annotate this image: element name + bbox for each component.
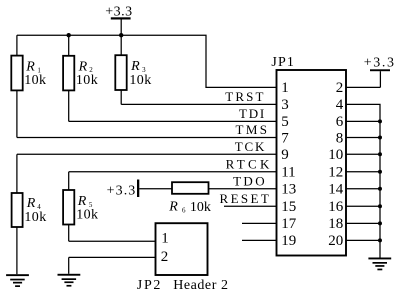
svg-text:10k: 10k [76,208,98,223]
resistor R1 [11,35,46,137]
wire pin8 [346,137,380,139]
wire JP2 pin1 [69,240,156,242]
resistor R6 [168,182,211,215]
svg-text:20: 20 [328,233,343,249]
svg-text:2: 2 [161,249,169,265]
resistor R3 [115,35,151,104]
wire TMS [17,137,277,139]
wire pin18 [346,222,380,224]
junction pin12 [378,170,382,174]
svg-text:10k: 10k [190,200,211,215]
svg-text:RESET: RESET [220,191,272,206]
junction pin6 [378,119,382,123]
svg-text:R: R [168,200,178,215]
svg-text:6: 6 [336,114,344,130]
svg-text:2: 2 [336,80,344,96]
wire TDO right segment [209,188,277,190]
svg-text:1: 1 [281,80,289,96]
svg-text:10k: 10k [24,73,46,88]
wire JP2 pin2 [69,256,156,258]
svg-text:+3.3: +3.3 [107,184,137,199]
svg-text:14: 14 [328,182,344,198]
wire RTCK [69,171,277,173]
svg-text:18: 18 [328,216,343,232]
wire TDI [69,120,277,122]
svg-text:10: 10 [328,147,343,163]
ground (right bus) [368,258,391,271]
connector JP1 [271,55,346,256]
svg-text:+3.3: +3.3 [364,55,396,70]
svg-text:10k: 10k [24,210,46,225]
wire pin4 to ground bus [346,104,380,257]
wire pin10 [346,153,380,155]
junction pin14 [378,187,382,191]
resistor R5 [63,172,98,241]
wire +3.3 top rail [17,35,277,87]
svg-text:15: 15 [281,199,296,215]
svg-text:JP1: JP1 [271,55,295,70]
stub pin17 [242,222,277,224]
svg-text:5: 5 [281,114,289,130]
svg-text:8: 8 [336,130,344,146]
wire TCK [17,153,277,155]
wire pin14 [346,188,380,190]
svg-text:7: 7 [281,130,289,146]
junction pin16 [378,204,382,208]
svg-text:6: 6 [182,206,186,214]
svg-text:R: R [26,196,36,211]
ground (below R4) [6,274,29,287]
wire pin6 [346,120,380,122]
svg-text:RTCK: RTCK [226,157,273,172]
svg-text:4: 4 [336,97,344,113]
junction pin8 [378,136,382,140]
wire RESET [224,205,277,207]
svg-text:10k: 10k [76,73,98,88]
resistor R4 [12,154,47,274]
svg-text:12: 12 [328,165,343,181]
svg-text:Header 2: Header 2 [173,278,228,293]
wire pin12 [346,171,380,173]
svg-text:17: 17 [281,216,297,232]
wire TDO left segment [139,188,172,190]
power +3.3 (at R6) [107,180,140,199]
stub pin19 [242,239,277,241]
svg-text:3: 3 [281,97,289,113]
svg-text:JP2: JP2 [137,278,162,293]
svg-text:TRST: TRST [225,89,265,104]
svg-text:10k: 10k [129,73,151,88]
svg-text:19: 19 [281,233,296,249]
resistor R2 [63,35,98,121]
svg-text:1: 1 [161,230,169,246]
junction at R3 top [119,33,123,37]
ground (below R5 / JP2 pin2) [58,257,81,286]
svg-text:16: 16 [328,199,344,215]
junction pin20 [378,238,382,242]
wire pin20 [346,239,380,241]
svg-text:TDI: TDI [239,106,266,121]
svg-text:TMS: TMS [236,122,270,137]
junction pin10 [378,152,382,156]
svg-text:9: 9 [281,147,289,163]
svg-text:11: 11 [281,165,295,181]
junction pin18 [378,221,382,225]
power +3.3 (right, pin2) [346,55,396,87]
connector JP2 [156,223,208,275]
wire pin16 [346,205,380,207]
svg-text:13: 13 [281,182,296,198]
junction at R2 top [67,33,71,37]
svg-text:TCK: TCK [235,139,266,154]
svg-text:TDO: TDO [233,174,267,189]
wire TRST [121,103,276,105]
power +3.3 (top) [105,5,132,36]
